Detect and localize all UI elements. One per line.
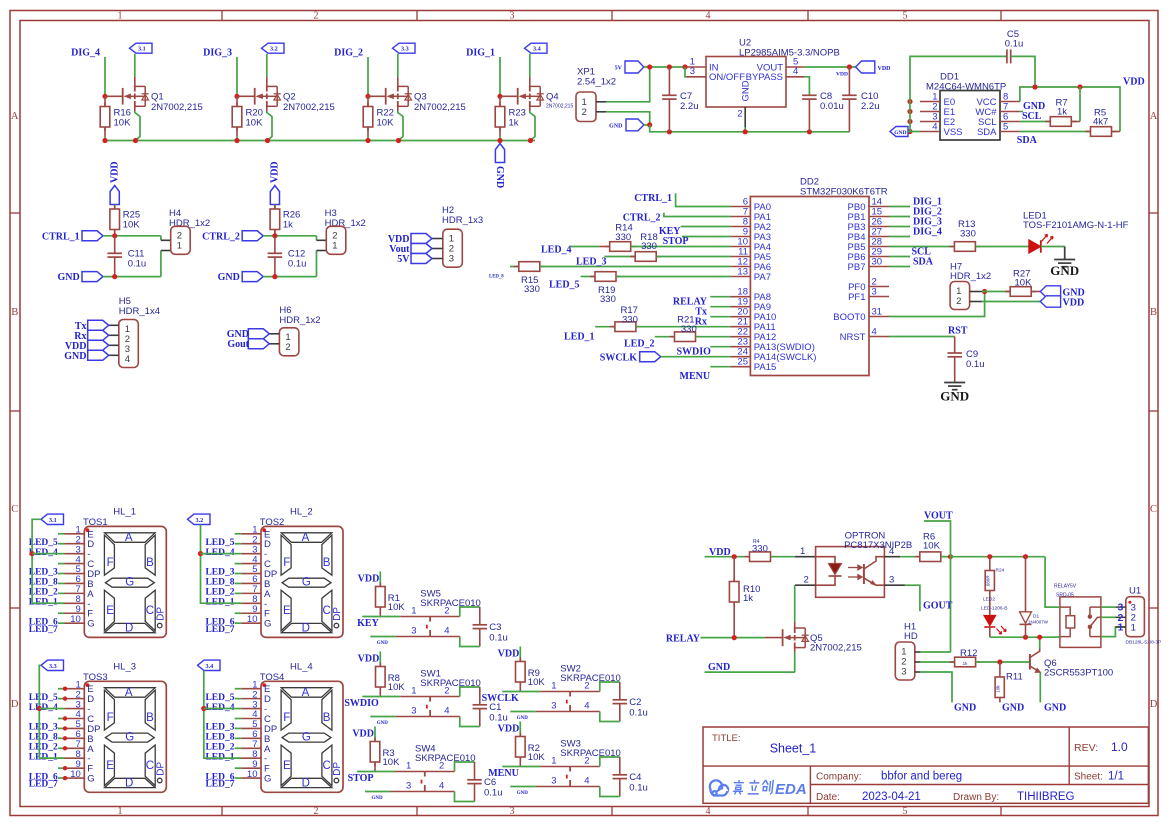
svg-text:SRD-05: SRD-05 (1056, 592, 1074, 598)
svg-text:HDR_1x3: HDR_1x3 (442, 215, 483, 226)
svg-text:10: 10 (70, 614, 81, 625)
svg-text:1: 1 (551, 756, 556, 767)
svg-text:3.4: 3.4 (206, 663, 214, 670)
svg-text:5: 5 (903, 11, 908, 22)
svg-text:Q4: Q4 (546, 92, 559, 103)
svg-text:B: B (1150, 307, 1157, 318)
svg-text:Company:: Company: (816, 771, 862, 782)
svg-text:PC817X3NIP2B: PC817X3NIP2B (844, 540, 912, 551)
svg-text:3.2: 3.2 (196, 517, 204, 524)
svg-text:VOUT: VOUT (924, 510, 953, 521)
svg-text:2: 2 (584, 681, 589, 692)
svg-text:A: A (11, 111, 19, 122)
svg-text:2: 2 (804, 575, 809, 586)
svg-text:TOS1: TOS1 (83, 517, 108, 528)
svg-text:B: B (146, 557, 154, 569)
svg-text:A: A (302, 532, 310, 544)
svg-text:3: 3 (449, 254, 454, 265)
svg-text:10K: 10K (1015, 278, 1033, 289)
svg-text:LED_8: LED_8 (29, 733, 58, 743)
svg-text:Drawn By:: Drawn By: (953, 792, 999, 803)
svg-text:10K: 10K (377, 118, 395, 129)
svg-text:GND: GND (371, 796, 383, 801)
svg-text:330: 330 (615, 232, 631, 243)
svg-text:C4: C4 (629, 772, 641, 783)
svg-text:VDD: VDD (878, 66, 892, 72)
svg-text:LED_8: LED_8 (29, 578, 58, 588)
svg-text:DB128L-5.08-3P: DB128L-5.08-3P (1126, 639, 1162, 645)
svg-text:3: 3 (510, 806, 515, 817)
svg-text:TOS-F2101AMG-N-1-HF: TOS-F2101AMG-N-1-HF (1023, 220, 1129, 231)
svg-text:0.1u: 0.1u (489, 633, 508, 644)
svg-text:GND: GND (954, 703, 976, 714)
svg-text:G: G (87, 774, 94, 785)
svg-text:2N7002,215: 2N7002,215 (283, 102, 335, 113)
svg-text:3.1: 3.1 (49, 517, 57, 524)
svg-text:10K: 10K (923, 541, 941, 552)
svg-text:LED_7: LED_7 (29, 780, 58, 790)
svg-text:LED_7: LED_7 (205, 625, 234, 635)
svg-text:B: B (323, 557, 331, 569)
svg-text:4: 4 (932, 121, 937, 132)
svg-text:D: D (302, 777, 310, 789)
svg-text:2: 2 (582, 107, 587, 118)
svg-text:D: D (302, 622, 310, 634)
svg-text:E: E (106, 760, 114, 772)
svg-text:B: B (146, 712, 154, 724)
svg-text:10: 10 (247, 614, 258, 625)
svg-text:4: 4 (872, 326, 877, 337)
svg-text:GND: GND (1002, 703, 1024, 714)
svg-text:E: E (283, 605, 291, 617)
svg-text:10K: 10K (528, 752, 546, 763)
svg-text:LED_5: LED_5 (29, 538, 58, 548)
svg-text:Gout: Gout (227, 339, 249, 350)
svg-text:4: 4 (444, 626, 449, 637)
svg-text:3: 3 (901, 666, 906, 677)
svg-text:HL_3: HL_3 (113, 662, 136, 673)
svg-text:10: 10 (247, 769, 258, 780)
svg-text:4: 4 (706, 11, 711, 22)
svg-text:3.3: 3.3 (401, 46, 409, 53)
svg-text:0.1u: 0.1u (484, 788, 503, 799)
svg-text:Sheet_1: Sheet_1 (770, 742, 817, 756)
svg-text:3: 3 (411, 706, 416, 717)
svg-text:VDD: VDD (1063, 297, 1085, 308)
svg-text:DIG_4: DIG_4 (913, 227, 942, 238)
svg-text:1N4007W: 1N4007W (1028, 620, 1049, 625)
svg-text:GND: GND (1044, 703, 1066, 714)
svg-text:VDD: VDD (836, 72, 848, 78)
svg-text:LED2: LED2 (983, 597, 995, 603)
svg-text:TIHIIBREG: TIHIIBREG (1017, 791, 1075, 803)
svg-text:GND: GND (377, 721, 389, 726)
svg-text:GND: GND (609, 124, 623, 130)
svg-text:4: 4 (125, 354, 130, 365)
svg-text:B: B (323, 712, 331, 724)
svg-text:STOP: STOP (663, 236, 689, 247)
svg-text:HL_1: HL_1 (113, 507, 136, 518)
svg-text:4k7: 4k7 (1093, 117, 1108, 128)
svg-text:DIG_4: DIG_4 (71, 48, 100, 59)
svg-text:LED_7: LED_7 (29, 625, 58, 635)
svg-text:RST: RST (948, 326, 968, 337)
svg-text:3.2: 3.2 (270, 46, 278, 53)
svg-text:GND: GND (940, 389, 969, 404)
svg-text:LED_8: LED_8 (205, 578, 234, 588)
svg-text:0.1u: 0.1u (128, 259, 147, 270)
svg-text:LED_8: LED_8 (489, 275, 504, 280)
svg-text:5V: 5V (615, 66, 623, 72)
svg-text:1: 1 (118, 11, 123, 22)
svg-text:DP: DP (156, 762, 167, 776)
svg-text:GND: GND (64, 351, 86, 362)
svg-text:LED_3: LED_3 (576, 256, 607, 267)
svg-text:D: D (11, 699, 19, 710)
svg-text:2023-04-21: 2023-04-21 (862, 791, 921, 803)
svg-text:B: B (11, 307, 18, 318)
svg-text:330: 330 (600, 294, 616, 305)
svg-text:TOS4: TOS4 (260, 672, 285, 683)
svg-text:F: F (283, 712, 290, 724)
svg-text:3: 3 (690, 66, 695, 77)
svg-text:PA15: PA15 (754, 362, 777, 373)
svg-text:330: 330 (641, 241, 657, 252)
svg-text:LED_3: LED_3 (29, 723, 58, 733)
svg-text:2: 2 (439, 761, 444, 772)
svg-text:LED_3: LED_3 (205, 723, 234, 733)
svg-text:Date:: Date: (816, 792, 840, 803)
svg-text:1: 1 (406, 761, 411, 772)
svg-text:1: 1 (411, 686, 416, 697)
svg-text:330: 330 (681, 324, 697, 335)
svg-text:LED_3: LED_3 (29, 568, 58, 578)
svg-text:GND: GND (1050, 263, 1079, 278)
svg-text:1k: 1k (509, 118, 519, 129)
svg-text:LED_3: LED_3 (205, 568, 234, 578)
svg-text:3.4: 3.4 (533, 46, 541, 53)
svg-text:SWCLK: SWCLK (482, 693, 519, 704)
svg-text:DIG_2: DIG_2 (334, 48, 363, 59)
svg-text:A: A (1150, 111, 1158, 122)
svg-text:2: 2 (314, 11, 319, 22)
svg-text:330: 330 (752, 544, 768, 555)
svg-text:R24: R24 (996, 568, 1005, 574)
svg-text:PA7: PA7 (754, 272, 771, 283)
svg-text:VDD: VDD (109, 161, 120, 183)
svg-text:A: A (125, 687, 133, 699)
svg-text:GND: GND (517, 716, 529, 721)
svg-text:C2: C2 (629, 697, 641, 708)
svg-text:1: 1 (411, 606, 416, 617)
svg-text:1: 1 (332, 241, 337, 252)
svg-text:PB7: PB7 (848, 262, 866, 273)
svg-text:GND: GND (517, 791, 529, 796)
svg-text:2: 2 (956, 296, 961, 307)
svg-text:VDD: VDD (1123, 77, 1145, 88)
svg-text:2SCR553PT100: 2SCR553PT100 (1044, 667, 1113, 678)
svg-text:R11: R11 (1006, 672, 1023, 683)
svg-text:DIG_3: DIG_3 (203, 48, 232, 59)
svg-text:D: D (1150, 699, 1158, 710)
svg-text:2: 2 (314, 806, 319, 817)
svg-text:LED_5: LED_5 (549, 280, 580, 291)
svg-text:2N7002,215: 2N7002,215 (810, 643, 862, 654)
svg-text:SWDIO: SWDIO (677, 347, 712, 358)
svg-text:SDA: SDA (977, 127, 997, 138)
svg-text:LED_5: LED_5 (29, 693, 58, 703)
svg-text:2N7002,215: 2N7002,215 (414, 102, 466, 113)
svg-text:F: F (107, 712, 114, 724)
svg-text:DP: DP (332, 762, 343, 776)
svg-text:5: 5 (1003, 121, 1008, 132)
svg-text:BOOT0: BOOT0 (833, 312, 865, 323)
svg-text:3.1: 3.1 (138, 46, 146, 53)
svg-text:GND: GND (494, 166, 505, 188)
svg-text:0.1u: 0.1u (489, 713, 508, 724)
svg-text:DP: DP (156, 607, 167, 621)
svg-text:CTRL_1: CTRL_1 (42, 231, 80, 242)
svg-text:G: G (302, 577, 311, 589)
svg-text:3: 3 (406, 781, 411, 792)
svg-text:G: G (264, 774, 271, 785)
svg-text:G: G (87, 619, 94, 630)
svg-text:A: A (125, 532, 133, 544)
svg-text:SWCLK: SWCLK (600, 353, 637, 364)
svg-text:10K: 10K (528, 677, 546, 688)
svg-text:VDD: VDD (358, 574, 380, 585)
svg-text:GND: GND (218, 272, 240, 283)
svg-text:DP: DP (332, 607, 343, 621)
svg-text:KEY: KEY (357, 618, 379, 629)
svg-text:LED_1: LED_1 (564, 332, 595, 343)
svg-text:GND: GND (377, 641, 389, 646)
svg-text:NRST: NRST (840, 332, 866, 343)
svg-text:5: 5 (903, 806, 908, 817)
svg-text:10k: 10k (996, 685, 1001, 693)
svg-text:330: 330 (524, 284, 540, 295)
svg-text:13: 13 (737, 266, 748, 277)
svg-text:1k: 1k (963, 661, 969, 666)
svg-text:LED_7: LED_7 (205, 780, 234, 790)
svg-text:HL_4: HL_4 (290, 662, 313, 673)
svg-text:2N7002,215: 2N7002,215 (151, 102, 203, 113)
svg-text:0.1u: 0.1u (1005, 39, 1024, 50)
svg-text:30: 30 (872, 256, 883, 267)
svg-text:2: 2 (737, 109, 742, 120)
svg-text:1: 1 (1131, 622, 1136, 633)
svg-text:G: G (264, 619, 271, 630)
svg-text:10K: 10K (246, 118, 264, 129)
svg-text:LED_5: LED_5 (205, 693, 234, 703)
svg-text:4: 4 (793, 66, 798, 77)
svg-text:2.54_1x2: 2.54_1x2 (577, 76, 616, 87)
svg-text:C: C (146, 760, 154, 772)
svg-text:2: 2 (444, 686, 449, 697)
svg-text:2N7002,215: 2N7002,215 (546, 104, 573, 110)
svg-text:3: 3 (551, 701, 556, 712)
svg-text:MENU: MENU (488, 768, 519, 779)
svg-text:TOS3: TOS3 (83, 672, 108, 683)
svg-text:C: C (322, 760, 330, 772)
svg-text:LED_8: LED_8 (205, 733, 234, 743)
svg-text:LED_4: LED_4 (541, 245, 572, 256)
svg-text:0.1u: 0.1u (629, 783, 648, 794)
svg-text:0.1u: 0.1u (629, 708, 648, 719)
svg-text:GND: GND (741, 80, 752, 101)
svg-text:U1: U1 (1129, 586, 1141, 597)
svg-text:D: D (125, 777, 133, 789)
svg-text:4: 4 (444, 706, 449, 717)
svg-text:TOS2: TOS2 (260, 517, 285, 528)
svg-text:C: C (322, 605, 330, 617)
svg-text:G: G (302, 732, 311, 744)
svg-text:E: E (106, 605, 114, 617)
svg-text:4: 4 (889, 546, 894, 557)
svg-text:CTRL_1: CTRL_1 (634, 193, 672, 204)
svg-text:2: 2 (444, 606, 449, 617)
svg-text:1k: 1k (1057, 107, 1067, 118)
svg-text:680R: 680R (986, 575, 991, 587)
svg-text:25: 25 (737, 357, 748, 368)
svg-text:0.01u: 0.01u (820, 101, 844, 112)
svg-text:VDD: VDD (498, 724, 520, 735)
svg-text:HDR_1x4: HDR_1x4 (119, 306, 160, 317)
svg-text:10K: 10K (388, 682, 406, 693)
svg-text:1: 1 (800, 546, 805, 557)
svg-text:1: 1 (1117, 622, 1123, 634)
svg-text:0.1u: 0.1u (966, 359, 985, 370)
svg-text:RELAY5V: RELAY5V (1054, 583, 1077, 589)
svg-text:REV:: REV: (1074, 742, 1098, 754)
svg-text:4: 4 (584, 701, 589, 712)
svg-text:10: 10 (70, 769, 81, 780)
svg-text:3: 3 (889, 575, 894, 586)
svg-text:1: 1 (551, 681, 556, 692)
svg-text:D: D (125, 622, 133, 634)
svg-text:1k: 1k (283, 220, 293, 231)
svg-text:2.2u: 2.2u (680, 101, 699, 112)
svg-text:HL_2: HL_2 (290, 507, 313, 518)
svg-text:MENU: MENU (680, 371, 711, 382)
svg-text:3: 3 (872, 286, 877, 297)
svg-text:HDR_1x2: HDR_1x2 (279, 315, 320, 326)
svg-text:LED_2: LED_2 (205, 742, 234, 752)
svg-text:C: C (1150, 504, 1157, 515)
svg-text:A: A (302, 687, 310, 699)
svg-text:10K: 10K (388, 602, 406, 613)
svg-text:LED_2: LED_2 (29, 742, 58, 752)
svg-text:1k: 1k (743, 593, 753, 604)
svg-text:330: 330 (960, 228, 976, 239)
svg-text:10K: 10K (114, 118, 132, 129)
svg-text:LED_2: LED_2 (624, 339, 655, 350)
svg-text:E: E (283, 760, 291, 772)
svg-text:3: 3 (510, 11, 515, 22)
svg-text:bbfor and bereg: bbfor and bereg (881, 770, 962, 782)
svg-text:Sheet:: Sheet: (1074, 772, 1103, 783)
svg-text:C: C (146, 605, 154, 617)
svg-text:PF1: PF1 (848, 292, 865, 303)
svg-text:3: 3 (551, 776, 556, 787)
svg-text:VDD: VDD (498, 649, 520, 660)
svg-text:1/1: 1/1 (1108, 771, 1124, 783)
svg-text:SWDIO: SWDIO (344, 698, 379, 709)
svg-text:LED_5: LED_5 (205, 538, 234, 548)
svg-text:HD: HD (904, 631, 918, 642)
svg-text:SDA: SDA (913, 257, 934, 268)
svg-text:SCL: SCL (1022, 111, 1042, 122)
svg-text:GND: GND (894, 130, 906, 136)
svg-text:3: 3 (411, 626, 416, 637)
svg-text:0.1u: 0.1u (288, 259, 307, 270)
svg-text:31: 31 (872, 306, 883, 317)
svg-text:4: 4 (439, 781, 444, 792)
svg-text:C: C (11, 504, 18, 515)
svg-text:1.0: 1.0 (1111, 740, 1128, 754)
svg-text:10K: 10K (123, 220, 141, 231)
svg-text:GND: GND (57, 272, 79, 283)
svg-text:VDD: VDD (358, 654, 380, 665)
svg-text:5V: 5V (397, 254, 410, 265)
svg-text:VDD: VDD (352, 729, 374, 740)
svg-text:STOP: STOP (348, 773, 374, 784)
svg-text:TITLE:: TITLE: (712, 733, 741, 744)
svg-text:2: 2 (584, 756, 589, 767)
svg-text:SDA: SDA (1017, 135, 1038, 146)
svg-text:F: F (107, 557, 114, 569)
svg-text:HDR_1x2: HDR_1x2 (950, 271, 991, 282)
svg-text:R12: R12 (960, 648, 977, 659)
svg-text:4: 4 (584, 776, 589, 787)
svg-text:LED-1206-B: LED-1206-B (981, 606, 1007, 612)
svg-text:EDA: EDA (775, 781, 807, 798)
svg-text:10K: 10K (383, 757, 401, 768)
svg-text:VSS: VSS (944, 127, 963, 138)
svg-text:GND: GND (708, 662, 730, 673)
svg-text:2.2u: 2.2u (861, 101, 880, 112)
svg-text:1: 1 (118, 806, 123, 817)
svg-text:G: G (125, 732, 134, 744)
svg-text:RELAY: RELAY (666, 633, 701, 644)
svg-text:G: G (125, 577, 134, 589)
svg-text:F: F (283, 557, 290, 569)
svg-text:CTRL_2: CTRL_2 (202, 231, 240, 242)
svg-text:2: 2 (285, 342, 290, 353)
svg-text:LED_2: LED_2 (205, 588, 234, 598)
svg-text:VDD: VDD (270, 161, 281, 183)
svg-text:C3: C3 (489, 622, 501, 633)
svg-text:LED_2: LED_2 (29, 588, 58, 598)
svg-text:GOUT: GOUT (923, 601, 953, 612)
svg-text:4: 4 (706, 806, 711, 817)
svg-text:DIG_1: DIG_1 (466, 48, 495, 59)
svg-text:1: 1 (177, 241, 182, 252)
svg-text:3.3: 3.3 (49, 663, 57, 670)
svg-text:330: 330 (622, 315, 638, 326)
